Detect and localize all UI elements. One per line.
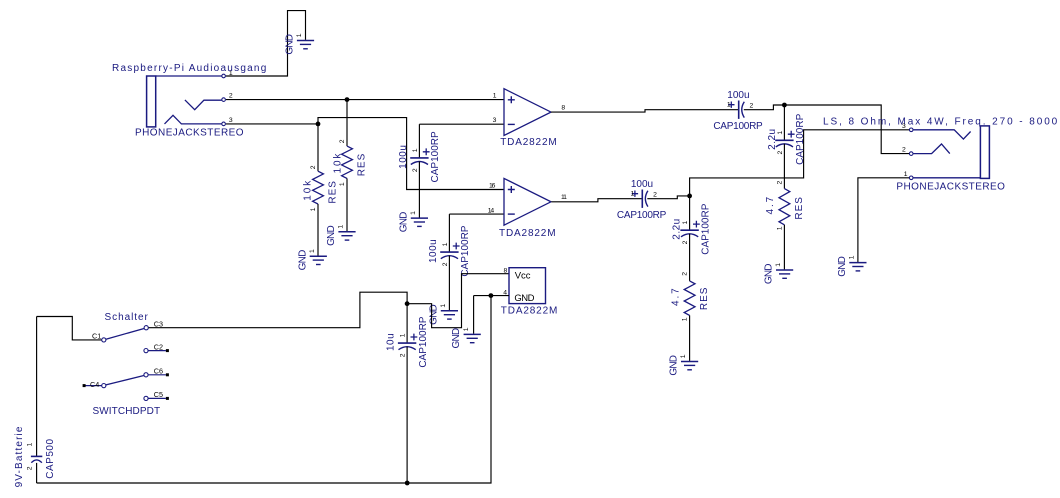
svg-text:2: 2 (682, 240, 689, 244)
power block U3 TDA2822M box (509, 268, 546, 304)
svg-text:1: 1 (680, 354, 687, 358)
svg-text:CAP100RP: CAP100RP (700, 203, 711, 254)
svg-text:2: 2 (229, 93, 233, 100)
svg-text:10k: 10k (333, 152, 344, 174)
wire R3 bottom to ground (346, 178, 348, 231)
svg-text:C1: C1 (92, 332, 101, 341)
svg-text:GND: GND (451, 328, 462, 348)
svg-text:CAP500: CAP500 (45, 438, 56, 478)
switch S1 C6 circle (144, 373, 148, 377)
svg-text:100u: 100u (727, 90, 749, 101)
svg-text:C4: C4 (90, 380, 99, 389)
wire C7 to junction B (647, 196, 689, 199)
svg-text:TDA2822M: TDA2822M (499, 228, 556, 239)
switch S1 C1 circle (102, 338, 106, 342)
wire R4 bottom to ground (317, 204, 319, 256)
wire R1 bottom to ground (783, 225, 785, 270)
svg-text:TDA2822M: TDA2822M (500, 137, 557, 148)
switch S1 C5 circle (144, 396, 148, 400)
connector J1 pin 1 contact (156, 75, 222, 77)
svg-text:CAP100RP: CAP100RP (460, 225, 471, 276)
svg-text:2: 2 (27, 466, 34, 470)
svg-text:1: 1 (440, 304, 447, 308)
switch S1 blade C4-C6 (106, 376, 144, 385)
svg-text:1: 1 (463, 327, 470, 331)
svg-text:GND: GND (398, 212, 409, 232)
junction bottom rail / C3 (405, 481, 410, 486)
junction U3 pin4 / bottom rail (489, 293, 494, 298)
capacitor C5 2.2u CAP100RP (ch1 zobel) (767, 113, 806, 164)
capacitor C2 100u CAP100RP (U2 feedback) (428, 225, 471, 276)
ground GND9 (speaker jack pin1) (837, 255, 867, 276)
op-amp U2 TDA2822M (channel 2) (504, 178, 551, 225)
svg-text:2: 2 (412, 168, 419, 172)
svg-text:2: 2 (750, 103, 754, 110)
switch S1 C4 terminal (83, 384, 86, 387)
wire net L: J1 pin2 to op-amp U1 pin1 (226, 99, 504, 101)
svg-text:2.2u: 2.2u (671, 218, 682, 239)
svg-text:1: 1 (777, 131, 784, 135)
svg-text:1: 1 (310, 207, 317, 211)
svg-text:1: 1 (776, 226, 783, 230)
resistor R1 4.7 (ch1 zobel) (765, 180, 805, 230)
wire C1 top stub (418, 124, 420, 158)
svg-text:2: 2 (902, 147, 906, 154)
svg-text:RES: RES (328, 180, 339, 204)
junction node A (ch1 out) (782, 103, 787, 108)
svg-text:CAP100RP: CAP100RP (418, 316, 429, 367)
capacitor C7 100u CAP100RP (ch2 output) (617, 179, 667, 221)
svg-text:1: 1 (309, 249, 316, 253)
wire C4 to junction A (744, 105, 785, 110)
svg-text:8: 8 (561, 105, 565, 112)
switch S1 C6 terminal (166, 373, 169, 376)
wire chip ground drop (473, 296, 475, 334)
wire U3 pin4 to ground branch (474, 295, 509, 297)
junction net R / R4 (316, 122, 321, 127)
svg-text:TDA2822M: TDA2822M (501, 306, 558, 317)
svg-text:CAP100RP: CAP100RP (713, 121, 763, 132)
svg-text:1: 1 (339, 182, 346, 186)
svg-text:2: 2 (776, 180, 783, 184)
svg-text:2: 2 (442, 262, 449, 266)
connector J1 pin 3 circle (222, 122, 226, 126)
wire U1 output pin8 (551, 110, 739, 112)
svg-text:C2: C2 (154, 342, 163, 351)
svg-text:8: 8 (504, 267, 508, 274)
svg-text:2: 2 (339, 139, 346, 143)
connector J1 pin 3 switch contact (165, 115, 222, 124)
switch S1 C4 stub (85, 385, 102, 387)
svg-text:1: 1 (493, 93, 497, 100)
wire J2 pin1 to ground (858, 178, 909, 262)
ground GND4 (below C1) (398, 211, 428, 232)
connector J1 pin 2 circle (222, 98, 226, 102)
resistor R4 10k (302, 165, 338, 211)
wire op-amp U1 pin3 input (419, 123, 503, 125)
svg-text:1: 1 (631, 191, 635, 198)
svg-text:1: 1 (412, 148, 419, 152)
wire battery positive rail (36, 317, 38, 457)
connector J2 PHONEJACKSTEREO body (980, 126, 989, 178)
wire Vcc node to U3 pin8 (detour) (407, 274, 509, 328)
switch S1 C2 stub (148, 350, 166, 352)
connector J2 pin 2 switch contact (913, 144, 950, 154)
svg-text:CAP100RP: CAP100RP (617, 210, 667, 221)
wire jack J1 pin1 to GND (top loop) (226, 11, 306, 76)
svg-text:1: 1 (442, 242, 449, 246)
connector J1 pin 2 switch contact (185, 100, 222, 110)
svg-text:CAP100RP: CAP100RP (430, 131, 441, 182)
connector J2 pin 3 circle (909, 128, 913, 132)
capacitor C4 100u CAP100RP (ch1 output) (713, 90, 763, 132)
svg-text:Raspberry-Pi Audioausgang: Raspberry-Pi Audioausgang (112, 63, 268, 74)
wire C3 top stub (406, 304, 408, 343)
capacitor C3 10u CAP100RP (supply) (385, 316, 429, 367)
wire node B to speaker jack J2 pin3 (690, 130, 910, 196)
wire node A down to C5 (783, 105, 785, 140)
connector J1 PHONEJACKSTEREO body (147, 76, 156, 127)
svg-text:3: 3 (902, 123, 906, 130)
wire battery negative to bottom rail (36, 463, 38, 483)
svg-text:C5: C5 (154, 390, 163, 399)
wire R4 top stub (317, 124, 319, 171)
junction net L / R3 (345, 97, 350, 102)
wire C1 bottom to ground (418, 161, 420, 217)
svg-text:C6: C6 (154, 367, 163, 376)
svg-text:SWITCHDPDT: SWITCHDPDT (93, 406, 161, 417)
svg-text:1: 1 (775, 263, 782, 267)
connector J2 pin 1 circle (909, 176, 913, 180)
switch S1 C3 circle (144, 326, 148, 330)
wire net R: J1 pin3 to junction (226, 123, 318, 125)
svg-text:RES: RES (794, 196, 805, 220)
battery B1 CAP500 symbol (14, 425, 56, 487)
ground GND8 (below R1) (764, 263, 794, 284)
wire C3 bottom to bottom rail (406, 347, 408, 483)
ground GND5 (below C2) (428, 304, 458, 325)
resistor R2 4.7 (ch2 zobel) (671, 272, 711, 322)
svg-text:GND: GND (428, 305, 439, 325)
svg-text:RES: RES (699, 287, 710, 311)
svg-text:CAP100RP: CAP100RP (795, 113, 806, 164)
svg-text:LS, 8 Ohm, Max 4W, Freq. 270 -: LS, 8 Ohm, Max 4W, Freq. 270 - 8000 (823, 116, 1059, 127)
svg-text:100u: 100u (428, 239, 439, 263)
junction node B (ch2 out) (687, 194, 692, 199)
svg-text:GND: GND (514, 293, 534, 304)
svg-text:4.7: 4.7 (671, 286, 682, 306)
svg-text:C3: C3 (154, 319, 163, 328)
svg-text:GND: GND (837, 256, 848, 276)
wire C8 to R2 (689, 234, 691, 281)
wire switch C3 to Vcc junction (149, 292, 408, 328)
resistor R3 10k (333, 139, 368, 186)
switch S1 C5 stub (148, 397, 166, 399)
ground GND3 (below R3) (326, 225, 356, 246)
wire U2 output pin11 (551, 199, 642, 202)
svg-text:2: 2 (653, 192, 657, 199)
switch S1 C5 terminal (166, 397, 169, 400)
connector J2 pin 1 contact (913, 177, 980, 179)
wire C2 top stub (448, 214, 450, 252)
capacitor C8 2.2u CAP100RP (ch2 zobel) (671, 203, 711, 254)
svg-text:Vcc: Vcc (515, 271, 531, 282)
wire C5 to R1 (783, 144, 785, 189)
svg-text:100u: 100u (631, 179, 653, 190)
svg-text:1: 1 (682, 317, 689, 321)
svg-text:1: 1 (727, 102, 731, 109)
ground GND6 (chip ground) (451, 327, 481, 348)
svg-text:PHONEJACKSTEREO: PHONEJACKSTEREO (896, 182, 1005, 193)
svg-text:1: 1 (400, 333, 407, 337)
switch S1 C2 terminal (166, 349, 169, 352)
connector J2 pin 3 switch contact (913, 130, 970, 139)
ground GND2 (below R4) (297, 249, 327, 270)
switch S1 C4 circle (102, 384, 106, 388)
svg-text:GND: GND (764, 264, 775, 284)
svg-text:GND: GND (297, 250, 308, 270)
svg-text:3: 3 (229, 117, 233, 124)
svg-text:1: 1 (410, 211, 417, 215)
capacitor C1 100u CAP100RP (U1 feedback) (398, 131, 441, 182)
svg-text:GND: GND (326, 226, 337, 246)
switch S1 C6 stub (148, 374, 166, 376)
wire op-amp U2 pin14 input (449, 213, 503, 215)
wire bottom rail (37, 296, 491, 483)
wire node A to speaker jack J2 pin2 (784, 105, 909, 154)
wire R3 top stub (346, 100, 348, 147)
ground GND1 (top, at audio jack pin 1) (285, 33, 315, 54)
svg-text:10u: 10u (385, 333, 396, 351)
switch S1 C2 circle (144, 349, 148, 353)
svg-text:100u: 100u (398, 145, 409, 169)
svg-text:Schalter: Schalter (105, 312, 149, 323)
svg-text:2: 2 (310, 165, 317, 169)
connector J2 pin 2 circle (909, 152, 913, 156)
svg-text:1: 1 (904, 171, 908, 178)
svg-text:RES: RES (357, 153, 368, 177)
wire R2 bottom to ground (689, 315, 691, 361)
svg-text:1: 1 (682, 220, 689, 224)
svg-text:1: 1 (27, 442, 34, 446)
ground GND7 (below R2) (669, 354, 699, 375)
switch S1 blade C1-C3 (106, 329, 144, 340)
connector J1 pin 1 circle (222, 74, 226, 78)
wire node B down to C8 (689, 196, 691, 230)
svg-text:1: 1 (296, 33, 303, 37)
svg-text:10k: 10k (302, 179, 313, 201)
svg-text:PHONEJACKSTEREO: PHONEJACKSTEREO (135, 128, 244, 139)
svg-text:3: 3 (493, 117, 497, 124)
svg-text:2: 2 (682, 272, 689, 276)
junction Vcc node / C3 10u (405, 301, 410, 306)
svg-text:4.7: 4.7 (765, 195, 776, 215)
wire net R: junction to op-amp U2 pin16 (318, 118, 504, 190)
svg-text:2: 2 (777, 150, 784, 154)
wire battery loop left top (37, 317, 102, 340)
svg-text:GND: GND (285, 34, 296, 54)
svg-text:1: 1 (849, 255, 856, 259)
wire C2 bottom to ground (448, 256, 450, 311)
svg-text:1: 1 (338, 225, 345, 229)
op-amp U1 TDA2822M (channel 1) (504, 89, 551, 136)
svg-text:2: 2 (400, 353, 407, 357)
svg-text:9V-Batterie: 9V-Batterie (14, 425, 25, 487)
svg-text:GND: GND (669, 355, 680, 375)
